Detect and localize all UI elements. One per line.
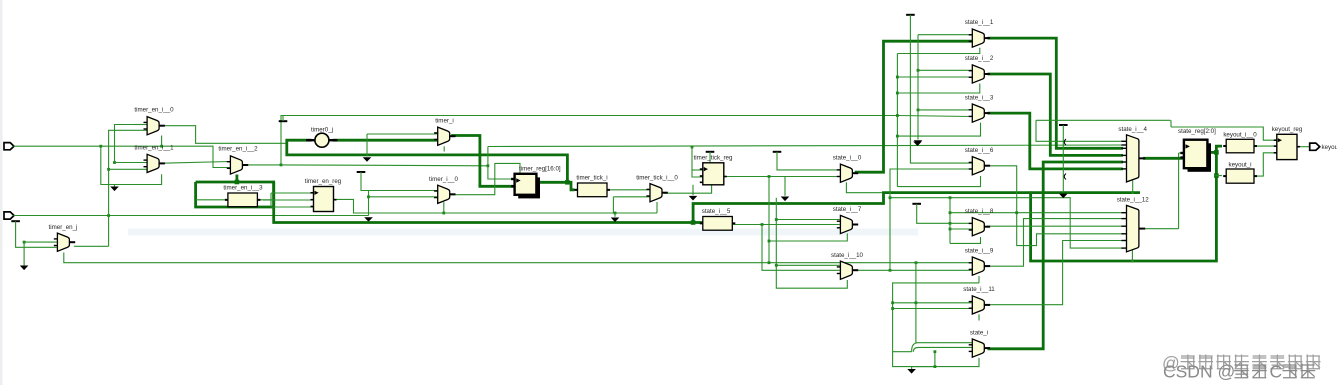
- wire: column x=776 & state_i__10 select: [776, 198, 847, 289]
- node: state_i__12 select on bus: [1131, 260, 1134, 263]
- wire: timer_en_reg input column: [270, 193, 272, 207]
- mux state_i__8: [969, 218, 990, 236]
- wire (bus): into state_i__5: [693, 221, 703, 224]
- wire: timer_en_i__1 in1: [115, 162, 147, 164]
- watermark juejin glyphs: [1181, 355, 1321, 369]
- wire (bus): timer_reg Q feedback to timer0_j: [287, 140, 568, 182]
- ground at column x=918: [914, 140, 923, 145]
- wire: timer_en_i__1 output to timer_en_i__2 in1: [162, 162, 230, 164]
- LUT keyout_i__0: [1223, 139, 1257, 153]
- wire: input1 down to timer_en_i__1 select: [101, 146, 162, 184]
- node: tap down to state_i__10: [761, 223, 764, 226]
- mux timer_i: [434, 127, 455, 145]
- wire: to state_i__9 in2: [890, 269, 972, 271]
- wire: long run to timer_reg clock column: [281, 164, 488, 167]
- node: bottom return tap B: [915, 261, 918, 264]
- wire: state_i in2: [919, 346, 972, 348]
- wire (bus): state_i output up to state_i__4 in5: [988, 162, 1123, 349]
- junction: Q feedback tap: [565, 180, 570, 185]
- svg-text:timer_tick_reg: timer_tick_reg: [694, 154, 733, 161]
- wire (bus): state_i__2 output to state_i__4 in4: [988, 74, 1123, 155]
- node: bus branch down: [1029, 191, 1032, 194]
- node: tap column x=950: [949, 196, 952, 199]
- wire: keyout_i__0 output to keyout_reg: [1257, 145, 1277, 147]
- node: tap to timer_tick_reg: [691, 146, 694, 149]
- node: tap state_i__8 in2: [949, 228, 952, 231]
- wire: state_i__9 select stub: [978, 276, 980, 283]
- wire: run to state_i__12 in1 column: [950, 212, 1017, 214]
- mux timer_tick_i__0: [646, 184, 667, 202]
- node: timer_en_i__0 select tap: [160, 145, 163, 148]
- wire: riser x=1171: [1170, 120, 1172, 127]
- svg-text:keyout_i: keyout_i: [1228, 161, 1251, 168]
- wire: stub into input column: [263, 199, 271, 201]
- wire: supply to state_i__8 in1: [917, 204, 972, 224]
- register timer_en_reg: [311, 187, 337, 212]
- wire: timer_en_i__2 output & long const rail: [246, 116, 897, 165]
- node: branch to timer_i__0 in2: [367, 195, 370, 198]
- register timer_tick_reg: [700, 163, 727, 185]
- mux timer_en_i__1: [144, 154, 165, 172]
- node: timer_en_j in1 tap: [23, 241, 26, 244]
- wire: fanout run to state_i__12 in6: [890, 198, 1123, 248]
- wire: timer_i select stub: [443, 146, 445, 151]
- mux timer_en_i__2: [227, 156, 248, 174]
- wire: state_i__12 in1: [1017, 212, 1123, 214]
- node: riser tap: [487, 164, 490, 167]
- wire: state_i__11 select stub: [978, 314, 980, 320]
- wire: long link to keyout region: [1036, 119, 1171, 121]
- wire: down to ground: [366, 134, 368, 157]
- node: tap state_i__2 in1: [917, 69, 920, 72]
- wire: column x=916 down to state_i: [915, 263, 917, 343]
- wire: hook into state_i inputs: [912, 343, 919, 352]
- bus tap mark 2: [1064, 174, 1066, 180]
- node: tap to state_i__10 in1: [775, 264, 778, 267]
- input port (left, timer enable): [4, 143, 14, 150]
- ground 2 at top column: [913, 142, 922, 147]
- wire: state_i__9 output to state_i__12 in2: [987, 219, 1123, 267]
- wire: state_i__11 output to state_i__12 in5: [987, 241, 1123, 305]
- wire: state_i__4 select stub: [1132, 181, 1134, 193]
- wire (bus): timer_en_i__2 select stub: [235, 175, 238, 183]
- wire: supply stub: [282, 116, 284, 122]
- wire: input1 to timer_en_i__2 in2: [14, 146, 230, 167]
- wire: down to ground: [23, 242, 25, 265]
- wire (bus): timer0_j output to timer_i in2: [333, 139, 438, 142]
- node: tap state_i__3 in1: [917, 109, 920, 112]
- ground near timer_i: [363, 157, 372, 162]
- node: fanout line tap: [889, 196, 892, 199]
- wire: bottom return into state_i__9 in1: [916, 262, 972, 264]
- node: select chain joins: [934, 365, 937, 368]
- wire: timer_en_i__1 in2: [109, 168, 147, 170]
- mux state_i__4: [1121, 135, 1145, 182]
- LUT keyout_i: [1223, 169, 1257, 183]
- wire: state_i__6 output to state_i__12 in4: [987, 166, 1123, 246]
- wire: from left into hook: [893, 351, 912, 353]
- node: output branch: [889, 269, 892, 272]
- mux state_i: [969, 339, 990, 357]
- wire: up to state_i__6 in2: [890, 169, 974, 270]
- node: tap state_i__2 in2: [896, 76, 899, 79]
- wire: ground stub: [911, 367, 913, 369]
- wire: hook lower: [913, 347, 918, 351]
- svg-text:timer_en_reg: timer_en_reg: [305, 178, 342, 185]
- wire: state_i__0 select to state bus: [846, 182, 883, 192]
- input port (right=second, clock): [4, 212, 14, 219]
- wire: state_i__7 in1: [776, 219, 840, 221]
- mux state_i__0: [837, 164, 858, 182]
- wire: state_i__1 select: [897, 48, 979, 54]
- wire: timer_en_reg in1: [271, 192, 314, 194]
- output port keyout: [1310, 143, 1320, 150]
- wire: into state_reg in1: [1179, 152, 1184, 154]
- mux timer_en_i__0: [144, 117, 165, 135]
- wire: keyout_i output to keyout_reg in3: [1257, 153, 1277, 176]
- svg-text:timer_en_i__3: timer_en_i__3: [223, 185, 263, 192]
- wire: timer_i__0 select: [443, 202, 445, 213]
- svg-text:keyout: keyout: [1322, 144, 1337, 151]
- wire: over and down into keyout_reg pin1: [1171, 127, 1277, 140]
- wire: input2 horizontal run: [14, 215, 369, 217]
- wire: select column x=897: [896, 54, 898, 187]
- svg-text:state_i: state_i: [970, 330, 988, 337]
- svg-text:timer_i: timer_i: [435, 118, 454, 125]
- mux state_i__6: [969, 157, 990, 175]
- node: link top: [934, 350, 937, 353]
- wire: state_i in1: [919, 342, 972, 344]
- wire: timer_en_j output: [74, 245, 109, 247]
- mux state_i__3: [969, 104, 990, 122]
- ground below timer_tick_reg: [689, 196, 698, 201]
- ground at bottom cluster: [907, 369, 916, 374]
- wire: in2 column down: [612, 197, 614, 213]
- node: branch to state_i__12 in1: [1015, 211, 1018, 214]
- supply above timer_en_j: [11, 220, 20, 222]
- node: joins timer_en_i__1 in2: [107, 168, 110, 171]
- wire: state_i__12 select stub: [1131, 250, 1133, 261]
- wire: state_i__12 output riser: [1178, 153, 1180, 229]
- wire: timer_en_i__0 in1 / link down: [115, 125, 135, 163]
- junction: branch to keyout_i: [1214, 173, 1219, 178]
- wire: supply rail down to state_i__6 in1: [910, 15, 973, 163]
- ground below timer_en_j: [20, 266, 29, 271]
- junction: timer_en_i__2 select on loop: [235, 180, 240, 185]
- wire: state_i__2 in1: [918, 69, 972, 71]
- wire: state_i__10 in1: [776, 264, 840, 266]
- wire: very long thin run to state_i__4 in2: [488, 145, 1123, 147]
- wire: timer_en_i__0 in2 stub: [134, 129, 147, 131]
- wire (bus): state_i__1 output to state_i__4 in3: [988, 38, 1123, 148]
- ground on state_i__0 in2 line: [781, 197, 790, 202]
- wire (bus): bus down/right/up to keyout_i__0: [1031, 146, 1222, 261]
- LUT state_i__5: [700, 217, 736, 231]
- node: rail meets select column: [896, 114, 899, 117]
- wire: stub down to ground: [784, 177, 786, 196]
- mux state_i__2: [969, 65, 990, 83]
- bus tap mark 1: [1064, 139, 1066, 145]
- svg-text:CSDN @: CSDN @: [1163, 362, 1235, 382]
- wire: to state_i__10 in2: [762, 225, 840, 271]
- mux state_i__12: [1121, 205, 1145, 251]
- LUT timer_en_i__3: [225, 193, 261, 207]
- junction: bus corner at state_i__5: [691, 220, 696, 225]
- mux state_i__11: [969, 296, 990, 314]
- supply for state_i__0 in1: [773, 151, 782, 153]
- wire (bus): timer_reg Q to timer_tick_i: [535, 182, 574, 190]
- wire: column x=769: [768, 177, 770, 263]
- node: tap to state_i__12 in1 line: [949, 211, 952, 214]
- wire: state_i__3 select: [897, 123, 980, 137]
- wire: timer_tick_i__0 select: [656, 202, 658, 213]
- wire: timer_tick_i out to timer_tick_i__0 in1: [607, 189, 649, 191]
- wire: state_i__2 in2: [897, 76, 971, 78]
- wire: clock pin: [495, 178, 515, 180]
- ground under supply column: [1059, 194, 1068, 199]
- svg-text:C: C: [1270, 362, 1283, 382]
- junction: state_reg output on bus: [1214, 150, 1219, 155]
- node: tap to state_i__7 in1: [775, 218, 778, 221]
- wire: state_i__11 in2: [893, 308, 972, 310]
- node: tap state_i__11 in1: [891, 301, 894, 304]
- wire: timer_i__0 output to timer_reg top input: [451, 163, 521, 194]
- node: state_i__4 select on bus: [1131, 191, 1134, 194]
- wire: timer_tick_i__0 in2: [613, 196, 649, 198]
- wire: timer_tick_i__0 output up to timer_tick_reg: [664, 185, 712, 193]
- wire: bus to keyout_i input: [1215, 175, 1222, 177]
- wire: timer_en_reg in3: [271, 206, 314, 208]
- node: tap state_i__11 in2: [891, 307, 894, 310]
- mux state_i__7: [837, 215, 858, 233]
- node: input2 / timer_en_j branch: [107, 214, 110, 217]
- svg-text:timer_tick_i__0: timer_tick_i__0: [636, 175, 678, 182]
- wire (bus): timer_en_i__3 loop left/bottom: [196, 182, 274, 207]
- svg-text:timer_reg[16:0]: timer_reg[16:0]: [519, 165, 561, 172]
- svg-text:state_i__6: state_i__6: [965, 147, 994, 154]
- wire: state_i select: [912, 358, 979, 367]
- wire: state_i__1 in1: [918, 34, 972, 36]
- wire: state_i__3 in1: [918, 109, 972, 111]
- svg-text:keyout_i__0: keyout_i__0: [1223, 132, 1257, 139]
- node: state_i__2 select tap: [896, 92, 899, 95]
- supply top rail: [906, 14, 915, 16]
- wire: state_i__8 select: [950, 237, 981, 243]
- svg-text:state_reg[2:0]: state_reg[2:0]: [1178, 128, 1216, 135]
- wire: timer_en_i__0 select stub: [161, 136, 163, 147]
- node: timer_i__0 select tap: [442, 212, 445, 215]
- wire: timer_i in1: [367, 133, 437, 135]
- svg-text:timer_en_i__1: timer_en_i__1: [134, 145, 174, 152]
- svg-text:state_i__7: state_i__7: [833, 206, 862, 213]
- left page edge: [0, 0, 3, 385]
- wire: timer_en_j select / long bottom return line: [64, 253, 916, 263]
- watermark csdn glyphs B: [1283, 364, 1316, 378]
- svg-text:state_i__5: state_i__5: [702, 208, 731, 215]
- wire: supply stub to reg: [709, 152, 711, 163]
- mux state_i__10: [837, 261, 858, 279]
- wire: rail into state_i__3 in2: [897, 116, 971, 117]
- mux state_i__9: [969, 257, 990, 275]
- register (block) state_reg[2:0]: [1180, 140, 1211, 172]
- LUT timer_tick_i: [575, 183, 611, 197]
- wire: supply to timer_en_j in2: [16, 221, 57, 247]
- wire (bus): timer_en_i__3 loop top & long lower bus: [196, 182, 693, 223]
- wire: timer_tick_reg to ground: [692, 185, 694, 195]
- ground under left mux column: [110, 187, 119, 192]
- node: state_i__3 select tap: [896, 135, 899, 138]
- wire (bus): timer_i output to timer_reg D: [451, 136, 514, 187]
- node: tap on tick_reg output: [768, 175, 771, 178]
- wire: column x=918: [917, 35, 919, 140]
- wire: supply rail to timer_i__0 in1: [361, 172, 437, 191]
- wire: link at x=935: [934, 352, 936, 367]
- supply above timer_tick_reg: [706, 151, 715, 153]
- wire: state_i__5 output to state_i__7 in2: [731, 224, 840, 226]
- wire: supply column: [1062, 125, 1064, 192]
- wire: timer_tick_reg in1: [692, 169, 703, 171]
- wire: keyout_reg output to port: [1300, 146, 1310, 148]
- wire: timer_en_i__0 output over to feedback column: [162, 126, 286, 144]
- svg-text:timer_i__0: timer_i__0: [429, 176, 458, 183]
- wire: to state_i__4 in1: [1036, 120, 1123, 141]
- wire: state_i__10 output: [855, 269, 890, 271]
- wire: state_i__7 select: [769, 233, 847, 241]
- watermark csdn glyphs A: [1234, 364, 1267, 378]
- wire: state_i__8 output to state_i__12 in3: [987, 225, 1123, 227]
- ground terminating input2 run: [364, 217, 373, 222]
- wire: state_i__12 output: [1146, 228, 1179, 230]
- svg-text:state_i__0: state_i__0: [833, 155, 862, 162]
- wire: timer_en_i__0 in2 vertical link: [109, 130, 134, 246]
- svg-text:state_i__11: state_i__11: [963, 286, 995, 293]
- mux timer_i__0: [434, 185, 455, 203]
- register keyout_reg: [1274, 134, 1300, 159]
- wire: supply to state_i__0 in1: [777, 152, 840, 170]
- wire: timer_en_i__3 output: [258, 199, 274, 201]
- wire: ground stub: [114, 185, 116, 187]
- svg-text:timer_en_j: timer_en_j: [49, 224, 78, 231]
- svg-text:state_i__12: state_i__12: [1117, 196, 1150, 203]
- wire: state_i__2 select: [897, 84, 979, 94]
- svg-text:state_i__2: state_i__2: [965, 55, 994, 62]
- wire: branch to timer_reg clock: [488, 166, 495, 179]
- node: state_i__7 select tap: [768, 240, 771, 243]
- wire (bus): state_i__0 output up to state_i__1 in2: [855, 41, 972, 172]
- mux timer_en_j: [54, 233, 75, 251]
- node: crossing tap: [915, 301, 918, 304]
- wire: state_i__8 in2: [950, 228, 972, 230]
- faint watermark band: [128, 229, 918, 236]
- supply above timer_en_reg: [357, 171, 366, 173]
- wire: column x=950: [949, 198, 951, 244]
- node: tap state_i__8 in1: [949, 222, 952, 225]
- svg-text:timer_tick_i: timer_tick_i: [576, 175, 607, 182]
- wire: state_i__6 select: [897, 176, 980, 187]
- wire: down into timer_tick_reg in2: [692, 147, 703, 177]
- svg-text:timer_en_i__0: timer_en_i__0: [134, 107, 174, 114]
- wire (bus): state feedback bus lower run: [693, 193, 1140, 223]
- supply bar on rail: [279, 120, 288, 122]
- supply for state_i__8: [912, 203, 921, 205]
- wire: state_i__11 in1: [893, 302, 972, 304]
- node: ground tap on run: [614, 212, 617, 215]
- wire (bus): state_reg Q stub: [1208, 151, 1217, 154]
- node: bottom return tap A: [768, 261, 771, 264]
- node: rail branch: [280, 164, 283, 167]
- svg-text:state_i__3: state_i__3: [965, 94, 994, 101]
- svg-text:state_i__1: state_i__1: [965, 19, 994, 26]
- svg-text:state_i__4: state_i__4: [1118, 126, 1147, 133]
- wire: timer_en_reg output long run: [334, 199, 658, 213]
- wire: timer_en_i__0 in1 stub: [134, 124, 147, 126]
- svg-text:keyout_reg: keyout_reg: [1272, 126, 1303, 133]
- svg-text:timer0_j: timer0_j: [311, 127, 333, 134]
- wire (bus): state_i__4 output to state_reg: [1143, 157, 1184, 160]
- wire (bus): state_i__3 output to state_i__4 in6: [988, 113, 1123, 169]
- register (block) timer_reg[16:0]: [511, 174, 540, 199]
- wire: timer_en_j in1: [24, 241, 57, 243]
- wire: riser at x=488: [487, 147, 489, 166]
- wire: timer_i__0 in2: [369, 196, 438, 198]
- svg-text:state_i__9: state_i__9: [965, 248, 994, 255]
- wire: timer_en_i__3 input: [196, 199, 228, 201]
- wire: select chain down left column: [893, 283, 979, 367]
- wire: stub to ground: [614, 213, 616, 217]
- node: link joins timer_en_i__1 in1: [113, 161, 116, 164]
- wire: timer_tick_reg output to state_i__0 in2: [725, 176, 840, 178]
- svg-text:state_i__8: state_i__8: [965, 208, 994, 215]
- node: input1 branch: [99, 145, 102, 148]
- svg-text:state_i__10: state_i__10: [831, 252, 864, 259]
- wire: timer_en_reg output leg down: [368, 191, 370, 216]
- buffer timer0_j: [306, 133, 338, 147]
- supply near state_i__4: [1059, 124, 1068, 126]
- ground near timer_tick mux: [611, 218, 620, 223]
- svg-text:timer_en_i__2: timer_en_i__2: [218, 146, 258, 153]
- mux state_i__1: [969, 29, 990, 47]
- wire: timer_en_reg in2: [271, 199, 314, 201]
